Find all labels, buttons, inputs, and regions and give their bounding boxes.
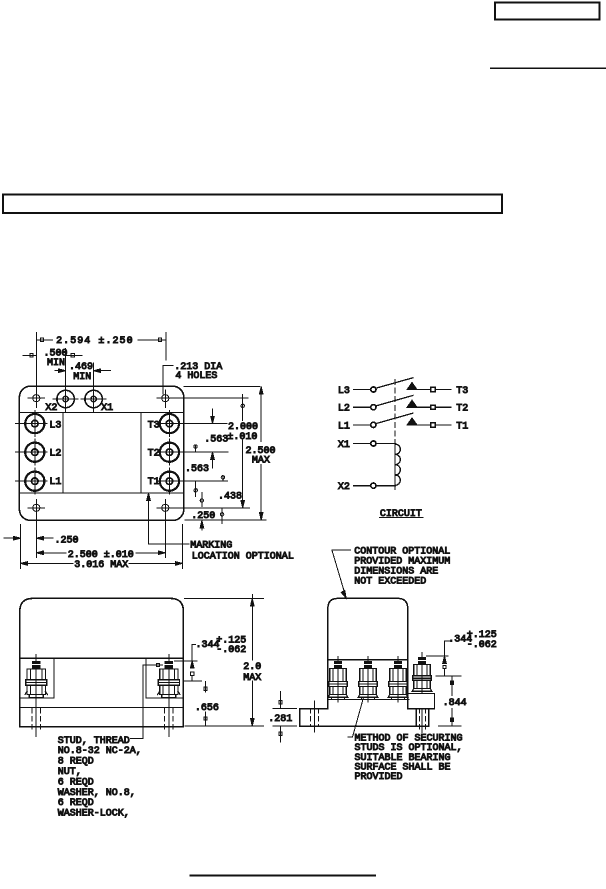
svg-text:-.062: -.062: [216, 645, 246, 656]
svg-text:.250: .250: [55, 536, 79, 547]
svg-text:MARKING: MARKING: [190, 541, 232, 552]
svg-text:T1: T1: [456, 421, 468, 432]
svg-text:LOCATION OPTIONAL: LOCATION OPTIONAL: [192, 551, 294, 562]
svg-text:8 REQD: 8 REQD: [58, 757, 94, 768]
svg-text:WASHER, NO.8,: WASHER, NO.8,: [58, 788, 136, 799]
svg-text:NOT EXCEEDED: NOT EXCEEDED: [354, 577, 426, 588]
svg-text:T3: T3: [456, 386, 468, 397]
svg-text:6 REQD: 6 REQD: [58, 798, 94, 809]
svg-text:L3: L3: [338, 386, 350, 397]
svg-text:4 HOLES: 4 HOLES: [175, 371, 217, 382]
svg-text:T3: T3: [148, 421, 160, 432]
svg-text:L1: L1: [338, 421, 350, 432]
svg-text:.563: .563: [204, 435, 228, 446]
svg-text:.438: .438: [218, 491, 242, 502]
svg-text:MAX: MAX: [252, 455, 270, 466]
svg-text:3.016 MAX: 3.016 MAX: [74, 560, 128, 571]
svg-text:STUD, THREAD: STUD, THREAD: [58, 736, 130, 747]
svg-text:-.062: -.062: [467, 640, 497, 651]
svg-text:.250: .250: [191, 511, 215, 522]
svg-text:MAX: MAX: [243, 673, 261, 684]
svg-text:L3: L3: [49, 421, 61, 432]
svg-text:CIRCUIT: CIRCUIT: [380, 509, 422, 520]
svg-text:X1: X1: [338, 440, 350, 451]
svg-text:±.010: ±.010: [227, 432, 257, 443]
svg-text:2.594 ±.250: 2.594 ±.250: [56, 336, 134, 347]
svg-text:.563: .563: [185, 464, 209, 475]
svg-text:MIN: MIN: [47, 358, 65, 369]
svg-text:X1: X1: [101, 403, 113, 414]
svg-text:T2: T2: [148, 449, 160, 460]
svg-text:.844: .844: [443, 698, 467, 709]
svg-text:L2: L2: [49, 449, 61, 460]
svg-text:X2: X2: [338, 482, 350, 493]
svg-text:WASHER-LOCK,: WASHER-LOCK,: [58, 809, 130, 820]
svg-text:2.0: 2.0: [243, 662, 261, 673]
svg-text:NO.8-32 NC-2A,: NO.8-32 NC-2A,: [58, 746, 142, 757]
svg-text:L2: L2: [338, 404, 350, 415]
svg-text:.656: .656: [195, 703, 219, 714]
svg-text:NUT,: NUT,: [58, 767, 82, 778]
svg-text:.281: .281: [268, 714, 292, 725]
svg-text:6 REQD: 6 REQD: [58, 777, 94, 788]
svg-text:MIN: MIN: [73, 372, 91, 383]
svg-text:T1: T1: [148, 477, 160, 488]
svg-text:T2: T2: [456, 404, 468, 415]
svg-text:X2: X2: [45, 403, 57, 414]
svg-text:PROVIDED: PROVIDED: [355, 772, 403, 783]
svg-text:L1: L1: [49, 477, 61, 488]
